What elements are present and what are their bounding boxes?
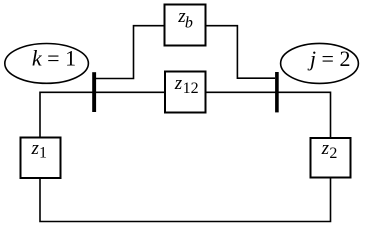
node label j = 2 (right ellipse) <box>281 43 359 83</box>
wire from z_1 up through bus k to z_12 left lead <box>40 92 164 137</box>
svg-text:z: z <box>321 138 330 159</box>
bottom return wire from z_1 to z_2 <box>40 178 331 221</box>
svg-text:k = 1: k = 1 <box>32 46 76 71</box>
busbar j (right bus) <box>275 72 279 112</box>
node label k = 1 (left ellipse) <box>5 44 89 84</box>
wire from z_12 right lead through bus j down to z_2 <box>207 92 331 137</box>
svg-text:j = 2: j = 2 <box>307 46 351 71</box>
svg-text:1: 1 <box>39 145 47 162</box>
impedance z_1 <box>21 138 61 179</box>
wire from bus k up to z_b (left lead) <box>96 26 164 79</box>
busbar k (left bus) <box>92 72 96 112</box>
svg-text:12: 12 <box>183 80 199 97</box>
impedance z_12 <box>165 72 206 113</box>
wire from z_b down to bus j (right lead) <box>207 26 276 78</box>
svg-text:z: z <box>174 73 183 94</box>
impedance z_2 <box>311 138 351 178</box>
impedance z_b <box>165 5 206 46</box>
svg-text:2: 2 <box>329 145 337 162</box>
svg-text:b: b <box>185 14 193 31</box>
